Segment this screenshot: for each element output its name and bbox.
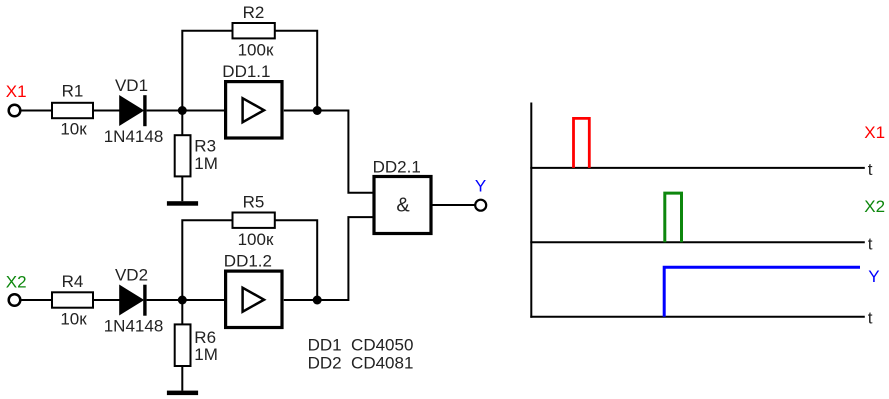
svg-text:R1: R1 [62, 82, 84, 101]
wire node A down to R3 [181, 111, 183, 136]
svg-text:X2: X2 [6, 273, 27, 292]
svg-text:X1: X1 [864, 123, 885, 142]
ground (R6) [167, 391, 198, 396]
wire node C up to R5 left [182, 220, 232, 300]
wire DD2.1 output to Y [433, 204, 475, 206]
diode VD1 [120, 95, 145, 126]
wire R4 to VD2 [93, 299, 120, 301]
timing axis X2 [530, 241, 865, 243]
resistor R6 [175, 324, 191, 366]
wire R3 to ground [181, 176, 183, 201]
svg-text:DD1.1: DD1.1 [222, 62, 270, 81]
junction node A [178, 106, 187, 115]
wire R1 to VD1 [93, 110, 120, 112]
svg-text:R2: R2 [243, 3, 265, 22]
svg-text:1M: 1M [194, 345, 218, 364]
buffer DD1.2 [226, 271, 282, 327]
terminal X1 [9, 105, 21, 117]
wire node A up to R2 left [182, 31, 232, 111]
terminal Y [475, 200, 486, 211]
resistor R3 [175, 135, 191, 176]
svg-text:100к: 100к [238, 230, 274, 249]
wire R6 to ground [181, 366, 183, 391]
svg-text:Y: Y [475, 176, 486, 195]
svg-text:R5: R5 [243, 193, 265, 212]
svg-text:DD1.2: DD1.2 [224, 251, 272, 270]
svg-text:VD1: VD1 [115, 76, 148, 95]
wire X2 to R4 [22, 299, 53, 301]
junction node B [313, 106, 322, 115]
wire node B to DD2.1 top input [317, 111, 374, 193]
buffer DD1.1 [226, 82, 282, 138]
step Y [664, 267, 860, 316]
svg-text:10к: 10к [60, 310, 87, 329]
svg-text:1N4148: 1N4148 [104, 316, 164, 335]
svg-text:1M: 1M [194, 154, 218, 173]
resistor R5 [233, 213, 275, 228]
svg-text:X2: X2 [864, 197, 885, 216]
svg-text:10к: 10к [60, 120, 87, 139]
svg-text:t: t [868, 160, 873, 179]
terminal X2 [9, 294, 21, 306]
timing axis Y [530, 316, 865, 318]
resistor R2 [233, 23, 275, 38]
svg-text:VD2: VD2 [115, 265, 148, 284]
wire DD1.2 output to node D [284, 299, 317, 301]
wire node D to DD2.1 bottom input [317, 217, 374, 300]
timing axis X1 [530, 167, 865, 169]
svg-text:&: & [396, 195, 410, 217]
svg-text:100к: 100к [238, 41, 274, 60]
svg-text:DD2 CD4081: DD2 CD4081 [308, 353, 414, 372]
pulse X1 [574, 118, 590, 167]
junction node C [178, 296, 187, 305]
diode VD2 [120, 285, 145, 316]
svg-text:DD2.1: DD2.1 [373, 158, 421, 177]
resistor R4 [52, 292, 93, 307]
svg-text:Y: Y [868, 267, 879, 286]
wire R2 right down to node B [275, 31, 317, 111]
wire node A to DD1.1 input [182, 110, 225, 112]
wire DD1.1 output to node B [284, 110, 317, 112]
svg-text:R4: R4 [62, 272, 84, 291]
AND gate DD2.1 [374, 177, 431, 234]
timing vertical axis [530, 103, 532, 318]
junction node D [313, 296, 322, 305]
resistor R1 [52, 103, 93, 118]
svg-text:DD1 CD4050: DD1 CD4050 [308, 336, 414, 355]
wire VD1 to node A [147, 110, 183, 112]
svg-text:R3: R3 [194, 137, 216, 156]
wire node C to DD1.2 input [182, 299, 225, 301]
wire R5 right down to node D [275, 220, 317, 300]
wire VD2 to node C [147, 299, 183, 301]
ground (R3) [167, 201, 198, 206]
pulse X2 [665, 193, 682, 242]
svg-text:1N4148: 1N4148 [104, 127, 164, 146]
wire node C down to R6 [181, 300, 183, 324]
svg-text:t: t [868, 309, 873, 328]
svg-text:t: t [868, 234, 873, 253]
svg-text:X1: X1 [6, 82, 27, 101]
wire X1 to R1 [22, 110, 53, 112]
